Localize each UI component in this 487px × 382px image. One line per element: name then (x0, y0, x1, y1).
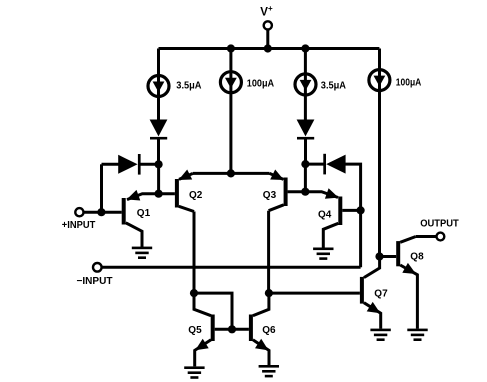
wire node C to D4 cathode (305, 163, 323, 166)
svg-text:Q1: Q1 (137, 208, 151, 219)
svg-text:OUTPUT: OUTPUT (420, 218, 459, 229)
diode D2 (horizontal, left, pointing right) (118, 154, 140, 175)
svg-text:Q6: Q6 (262, 325, 276, 336)
wire Q3 base to node D (288, 190, 306, 193)
transistor Q3 (PNP, mirrored) (269, 170, 288, 211)
svg-text:100μA: 100μA (396, 77, 422, 88)
node Q7 collector / Q8 base (375, 252, 383, 260)
node Q4 base (357, 206, 365, 214)
wire +INPUT terminal to Q1 base (83, 211, 121, 214)
wire node F to Q7 base (269, 292, 360, 295)
wire rail drop to I3 and through to D3 (304, 49, 307, 120)
terminal +INPUT (75, 208, 83, 216)
diode D1 (vertical, left) (150, 120, 168, 140)
terminal V+ (264, 21, 272, 29)
wire -INPUT terminal line (102, 266, 361, 269)
svg-text:100μA: 100μA (247, 78, 274, 89)
svg-text:Q8: Q8 (410, 251, 424, 262)
svg-text:3.5μA: 3.5μA (176, 81, 201, 92)
node B (Q1 emitter / Q2 base) (155, 190, 163, 198)
wire rail drop to I4 and down to Q8 base node (378, 49, 381, 257)
transistor Q5 (NPN, mirrored) (194, 293, 215, 366)
wire Q3 collector vertical (267, 211, 270, 293)
node common emitters (227, 169, 235, 177)
terminal OUTPUT (437, 233, 445, 241)
wire common emitter rail Q2-Q3 (193, 172, 270, 175)
svg-text:Q5: Q5 (188, 325, 202, 336)
wire D2 cathode to node A (140, 163, 158, 166)
node rail-I3 (301, 44, 309, 52)
transistor Q4 (PNP, mirrored) (305, 188, 342, 248)
wire Q2 collector vertical (193, 212, 196, 294)
svg-text:Q7: Q7 (374, 289, 388, 300)
node F (Q3 coll / Q6 coll) (265, 289, 273, 297)
transistor Q6 (NPN) (249, 293, 269, 365)
node rail-V+ (264, 44, 272, 52)
current source I3 3.5uA (295, 74, 316, 95)
node E (Q2 coll / Q5 coll) (190, 289, 198, 297)
wire left corner down to +INPUT node (100, 164, 103, 212)
wire rail drop to I2 and down to emitter node (229, 49, 232, 174)
svg-text:Q4: Q4 (318, 210, 332, 221)
ground (Q8) (407, 329, 427, 341)
svg-text:Q2: Q2 (189, 190, 203, 201)
svg-text:3.5μA: 3.5μA (321, 80, 346, 91)
wire Q4 base to right vertical (342, 209, 360, 212)
wire D1 cathode to node A (157, 140, 160, 165)
transistor Q1 (PNP) (122, 190, 159, 247)
svg-text:+INPUT: +INPUT (62, 220, 96, 231)
transistor Q8 (NPN) (380, 237, 418, 329)
wire node C down to node D (304, 164, 307, 192)
transistor Q2 (PNP) (175, 170, 194, 212)
node C (right diodes) (301, 160, 309, 168)
wire Q5-Q6 base rail (215, 328, 249, 331)
svg-text:+: + (268, 4, 273, 13)
node +INPUT/Q1 base (97, 208, 105, 216)
wire V+ stub (266, 30, 269, 49)
ground (Q6) (259, 365, 279, 377)
ground (Q1) (132, 247, 152, 259)
current source I2 100uA (220, 72, 241, 93)
wire node A down to node B (157, 164, 160, 193)
current source I4 100uA (369, 70, 390, 91)
node D (Q4 emitter / Q3 base) (301, 188, 309, 196)
ground (Q7) (370, 329, 390, 341)
transistor Q7 (NPN) (360, 257, 381, 329)
wire node B to Q2 base (159, 192, 175, 195)
current source I1 3.5uA (148, 76, 169, 97)
ground (Q4) (313, 248, 333, 260)
svg-text:Q3: Q3 (263, 190, 277, 201)
node rail-I2 (227, 44, 235, 52)
wire left diode branch: corner to D2 anode (102, 163, 120, 166)
wire Q8 collector to OUTPUT terminal (416, 235, 437, 238)
diode D3 (vertical, right) (297, 120, 315, 140)
wire top rail (159, 47, 380, 50)
wire rail drop to I1 and through to D1 (157, 49, 160, 120)
wire mirror diode-connect: node E right then down to base rail (194, 293, 232, 329)
terminal -INPUT (93, 263, 102, 272)
node A (left diodes) (155, 160, 163, 168)
svg-text:−INPUT: −INPUT (77, 276, 113, 287)
node Q5/Q6 bases (228, 325, 236, 333)
wire D4 anode right to corner, down to -INPUT (345, 164, 361, 267)
ground (Q5) (184, 366, 204, 378)
wire D3 cathode to node C (304, 140, 307, 165)
diode D4 (horizontal, right, pointing left) (323, 154, 345, 175)
